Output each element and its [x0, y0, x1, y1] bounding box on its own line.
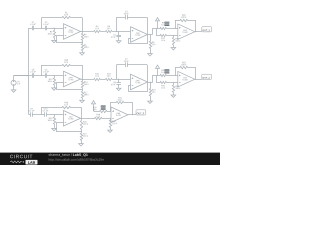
capacitor C1	[32, 26, 34, 31]
ground below R24	[54, 127, 56, 128]
wire OA1 out	[81, 31, 94, 33]
footer bar	[0, 153, 220, 165]
node OA1 out	[82, 31, 83, 32]
ground below R30	[110, 129, 112, 130]
resistor R12	[173, 35, 175, 37]
node OA8 out	[132, 114, 133, 115]
node A4	[116, 79, 117, 80]
resistor R20	[160, 74, 167, 76]
node OA4 out	[82, 79, 83, 80]
capacitor C6	[45, 73, 47, 78]
node R19 tap	[150, 82, 151, 83]
node C8 tap	[118, 79, 119, 80]
node divider 3	[81, 131, 82, 132]
node B1	[54, 28, 55, 29]
wire C10 to opamp	[46, 114, 63, 116]
resistor R15	[94, 78, 101, 80]
flag VMID row2	[157, 68, 159, 75]
node R30 tap	[110, 118, 111, 119]
capacitor C10	[44, 112, 46, 117]
resistor R9	[160, 27, 167, 29]
capacitor C2	[45, 26, 47, 31]
op-amp OA5	[131, 74, 148, 90]
node flag tap row2	[157, 75, 158, 76]
node flag tap row1	[157, 28, 158, 29]
node OA7 out	[81, 118, 82, 119]
resistor R16	[82, 79, 84, 81]
wire C9-C10	[32, 114, 44, 116]
node divider 1	[82, 42, 83, 43]
wire V1 bottom	[13, 85, 15, 89]
flag VMID row3	[93, 104, 95, 111]
wire input rail down	[28, 76, 30, 115]
capacitor C3 feedback	[116, 17, 118, 31]
resistor R26	[81, 118, 83, 120]
wire OA3 out	[195, 31, 202, 33]
feedback resistor R25	[41, 107, 43, 114]
resistor R2 shunt	[54, 28, 56, 30]
resistor R19	[150, 82, 152, 89]
node A2	[116, 31, 117, 32]
node R8 tap	[150, 34, 151, 35]
resistor R8	[150, 35, 152, 42]
wire R15-R18	[100, 79, 105, 81]
op-amp OA3	[178, 24, 195, 40]
node C4 tap	[118, 31, 119, 32]
resistor R21	[160, 81, 167, 83]
ground below R12	[173, 46, 175, 47]
ground below V1	[13, 89, 15, 90]
node flag OUT3	[136, 110, 146, 115]
wire V1 to C5	[14, 75, 33, 77]
resistor R17	[82, 90, 84, 92]
wire V1 top	[13, 76, 15, 81]
resistor R29	[100, 110, 108, 112]
wire OA8 out	[128, 114, 136, 116]
op-amp OA4	[64, 71, 81, 87]
node A5	[41, 114, 42, 115]
wire gain loop OA7	[57, 123, 82, 132]
node B3	[54, 75, 55, 76]
wire OA4 out	[81, 79, 94, 81]
resistor R11	[160, 34, 167, 36]
wire R18 to OA5	[112, 79, 130, 81]
node R23 tap	[175, 75, 176, 76]
ground below R22	[173, 94, 175, 95]
node R12 tap	[173, 35, 174, 36]
capacitor C7 feedback	[116, 65, 118, 79]
wire gain loop OA4	[57, 83, 83, 90]
bias box row3	[101, 105, 106, 109]
wire R6 to OA2	[112, 31, 130, 33]
node A1	[41, 28, 42, 29]
node B5	[54, 114, 55, 115]
node R31 tap	[110, 111, 111, 112]
ground below R8	[150, 53, 152, 54]
node OA3 out	[195, 31, 196, 32]
resistor R14 shunt	[54, 76, 56, 78]
node R22 tap	[173, 82, 174, 83]
wire link to stage3	[153, 29, 161, 35]
resistor R27	[81, 132, 83, 134]
voltage source V1	[11, 80, 16, 85]
op-amp OA8	[111, 107, 128, 123]
op-amp OA2	[131, 27, 148, 43]
node OA5 out	[147, 82, 148, 83]
feedback resistor R13	[41, 65, 43, 76]
ground below R27	[81, 143, 83, 144]
capacitor C5	[32, 73, 34, 78]
capacitor C9	[30, 112, 32, 117]
wire link to stage6	[153, 76, 161, 83]
op-amp OA1	[64, 24, 81, 40]
resistor R28	[95, 117, 103, 119]
resistor R3	[94, 30, 101, 32]
ground below C4	[118, 40, 120, 41]
resistor R4	[82, 32, 84, 34]
node A3	[41, 75, 42, 76]
wire bias to R21	[157, 76, 161, 83]
op-amp OA6	[178, 71, 195, 87]
node flag OUT1	[202, 27, 212, 32]
ground below R2	[54, 39, 56, 40]
flag VMID row1	[157, 21, 159, 28]
wire OA2 out	[148, 34, 153, 36]
wire gain loop OA1	[57, 36, 83, 43]
wire C6 to opamp	[47, 75, 64, 77]
node divider 2	[82, 89, 83, 90]
feedback resistor R31	[110, 102, 112, 111]
capacitor C4 shunt	[118, 32, 120, 36]
wire OA2 unity loop	[129, 35, 148, 44]
feedback resistor R23	[175, 68, 177, 76]
node OA6 out	[195, 79, 196, 80]
ground below R14	[54, 87, 56, 88]
node OA2 out	[147, 34, 148, 35]
wire C2 to opamp	[47, 28, 64, 30]
resistor R22	[173, 83, 175, 85]
bias box row1	[165, 22, 170, 26]
resistor R18	[106, 78, 113, 80]
wire OA6 out	[195, 79, 202, 81]
ground below R17	[82, 99, 84, 100]
node at input rail	[28, 75, 29, 76]
resistor R30	[110, 118, 112, 120]
node R10 tap	[175, 28, 176, 29]
wire C5-C6	[34, 75, 45, 77]
wire input rail up	[28, 28, 30, 76]
wire OA7 out	[81, 118, 95, 120]
wire bias to R11	[157, 29, 161, 36]
feedback resistor R1	[41, 18, 43, 29]
wire C1-C2	[34, 28, 45, 30]
resistor R5	[81, 44, 83, 51]
ground below C8	[118, 87, 120, 88]
wire OA5 out	[148, 82, 153, 84]
capacitor C8 shunt	[118, 79, 120, 83]
wire R3-R6	[100, 31, 105, 33]
node flag OUT2	[202, 74, 212, 79]
wire OA5 unity loop	[129, 83, 148, 92]
bias box row2	[165, 69, 170, 73]
ground below R5	[82, 52, 84, 53]
resistor R24 shunt	[54, 115, 56, 117]
resistor R6	[106, 30, 113, 32]
feedback resistor R10	[175, 20, 177, 28]
op-amp OA7	[64, 111, 81, 127]
ground below R19	[150, 100, 152, 101]
